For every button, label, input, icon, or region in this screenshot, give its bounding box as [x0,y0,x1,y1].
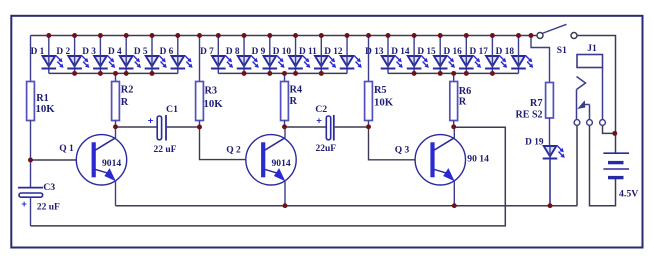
wire Q1 emitter [115,181,117,206]
LED D18 [496,36,534,74]
resistor R3 [196,82,224,121]
junction dot Q1 base node [28,158,33,163]
svg-text:+: + [148,116,154,127]
wire group3 cathode rail [388,72,519,74]
wire D19 cathode [549,159,551,206]
capacitor C3 22uF [18,182,60,213]
LED D5 [134,36,167,74]
svg-text:D 7: D 7 [200,47,214,57]
wire Q3 collector [453,127,455,138]
LED D19 [525,138,565,206]
svg-text:R: R [290,96,298,107]
svg-text:Q 1: Q 1 [59,144,74,154]
wire R6 bottom lead [453,121,455,128]
svg-text:10K: 10K [374,97,394,109]
resistor R4 [281,82,302,121]
svg-text:4.5V: 4.5V [619,189,638,200]
svg-text:D 14: D 14 [391,47,410,57]
wire R3 bottom lead [199,121,201,128]
wire Q3 base [369,127,416,160]
wire R2 top lead [115,73,117,81]
wire R3 top lead [199,36,201,82]
LED D15 [417,36,455,74]
svg-text:S1: S1 [557,46,567,56]
LED D10 [273,36,311,74]
resistor R6 [450,82,471,121]
svg-text:R2: R2 [121,85,134,96]
wire top supply rail [31,35,538,37]
wire R7 to D19 [549,118,551,146]
wire C2 to Q3 base node [335,126,369,128]
svg-text:R3: R3 [205,86,218,97]
junction dots collector nodes [113,124,456,129]
svg-text:D 12: D 12 [324,47,343,57]
wire R4 top lead [284,73,286,81]
svg-text:D 17: D 17 [470,47,489,57]
LED D13 [365,36,403,74]
LED D8 [226,36,259,74]
svg-text:D 10: D 10 [273,47,292,57]
svg-text:D 18: D 18 [496,47,515,57]
svg-text:9014: 9014 [272,158,291,169]
wire group1 cathode rail [49,72,178,74]
capacitor C1 22uF [148,104,178,155]
svg-text:+: + [21,199,27,210]
LED D11 [299,36,336,74]
LED D1 [31,36,64,74]
wire Q1 base [31,159,77,161]
wire R1 top lead [30,36,32,82]
svg-text:R7: R7 [530,98,543,109]
wire R6 top lead [453,73,455,81]
wire Q2 collector [284,127,286,138]
svg-text:R4: R4 [290,85,303,96]
LED D6 [160,36,193,74]
wire R5 bottom lead [368,121,370,128]
svg-text:D 8: D 8 [226,47,240,57]
LED D9 [252,36,285,74]
svg-text:D 15: D 15 [417,47,436,57]
svg-text:C2: C2 [315,104,327,115]
LED D4 [108,36,141,74]
junction dot battery positive node [612,131,617,136]
LED D14 [391,36,429,74]
junction dots group2 cathode rail [242,71,324,76]
wire R7 top lead [531,36,550,83]
svg-text:C1: C1 [166,104,178,115]
svg-text:J1: J1 [587,44,597,54]
resistor R2 [112,82,134,121]
wire Q2 collector to C2 [285,126,327,128]
wire C3 negative lead [30,197,32,226]
wire S1 to battery positive [577,36,616,134]
wire emitter ground rail [116,205,578,207]
svg-text:Q 2: Q 2 [226,145,241,155]
svg-text:D 11: D 11 [299,47,317,57]
junction dots group3 cathode rail [412,71,495,76]
svg-text:D 5: D 5 [134,47,148,57]
svg-text:D 3: D 3 [82,47,96,57]
wire Q1 collector [115,127,117,138]
svg-text:10K: 10K [36,103,56,115]
wire J1 pin2 to battery negative [590,126,616,206]
LED D16 [443,36,481,74]
wire battery positive lead [615,133,617,153]
battery 4.5V [603,153,638,199]
svg-text:9014: 9014 [102,158,121,169]
svg-text:D 6: D 6 [160,47,174,57]
LED D7 [200,36,233,74]
svg-text:Q 3: Q 3 [395,146,410,156]
junction dots group1 cathode rail [72,71,154,76]
svg-text:R: R [459,97,467,108]
LED D3 [82,36,115,74]
svg-text:RE S2: RE S2 [516,110,543,121]
svg-text:90 14: 90 14 [467,153,489,164]
switch S1 [537,24,577,56]
wire R2 bottom lead [115,121,117,128]
svg-text:R6: R6 [459,86,472,97]
wire R5 top lead [368,36,370,82]
svg-text:D 2: D 2 [56,47,70,57]
wire J1 pin3 to battery positive [603,126,616,134]
LED D17 [470,36,508,74]
LED D12 [324,36,362,74]
junction dots top rail [46,33,533,38]
wire group2 cathode rail [218,72,347,74]
svg-text:22uF: 22uF [316,144,337,154]
svg-text:D 19: D 19 [525,138,544,148]
svg-text:10K: 10K [204,98,224,110]
svg-text:R5: R5 [374,85,387,96]
wire J1 pin1 to ground rail [576,126,578,206]
svg-text:D 4: D 4 [108,47,122,57]
wire Q2 base [200,127,246,160]
capacitor C2 22uF [315,104,336,154]
resistor R7 [516,83,554,121]
svg-text:22 uF: 22 uF [37,203,60,213]
svg-text:D 1: D 1 [31,47,45,57]
resistor R5 [365,82,394,121]
svg-text:22 uF: 22 uF [154,145,177,155]
LED D2 [56,36,89,74]
wire Q1 collector to C1 [116,126,158,128]
jack J1 [574,44,605,125]
wire feedback return C3 to Q3 collector [31,127,506,226]
transistor Q2 [246,135,296,185]
junction dots ground rail [283,203,553,208]
wire Q2 emitter [284,181,286,206]
wire R4 bottom lead [284,121,286,128]
svg-text:D 9: D 9 [252,47,266,57]
wire Q3 emitter [453,181,455,206]
svg-text:D 16: D 16 [443,47,462,57]
svg-text:R: R [121,97,129,108]
transistor Q1 [76,135,126,185]
wire C1 to Q2 base node [167,126,200,128]
transistor Q3 [415,135,489,185]
svg-text:C3: C3 [43,182,55,193]
wire R1 bottom to C3 [30,121,32,188]
resistor R1 [27,82,56,121]
svg-text:+: + [316,116,322,127]
